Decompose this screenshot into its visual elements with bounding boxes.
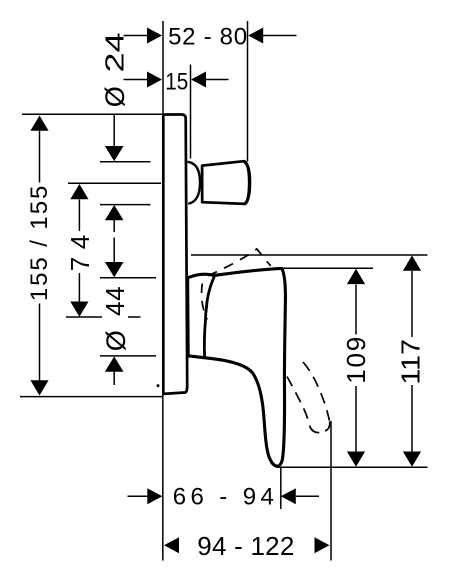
dim 109 stem lower	[355, 386, 357, 452]
arrow 15 left	[147, 72, 162, 88]
tick hub bottom	[100, 355, 156, 357]
escutcheon plate (side view)	[163, 115, 187, 394]
arrow 94-122 left	[164, 537, 179, 553]
extension line handle tip bottom	[277, 466, 428, 468]
dim 52-80 left tail	[124, 35, 148, 37]
lever handle body	[188, 268, 286, 466]
dim chain stem mid a	[113, 220, 115, 232]
dim 117 stem upper	[411, 271, 413, 337]
dim 15 left tail	[124, 79, 148, 81]
dim 52-80 right tail	[263, 35, 297, 37]
svg-text:94 - 122: 94 - 122	[197, 531, 294, 561]
knob front cap (thicker edge)	[244, 161, 250, 204]
extension line right of 52-80 (knob face)	[247, 21, 249, 162]
dim 109 stem upper	[355, 285, 357, 335]
knob (shut-off handle)	[202, 161, 249, 204]
dashed open lever tip arc	[310, 422, 330, 433]
knob sleeve bump	[188, 162, 201, 204]
dashed swept arc top	[208, 249, 271, 276]
tick knob bottom	[100, 204, 151, 206]
arrow 66-94 right	[281, 488, 296, 504]
arrow 52-80 right	[248, 28, 263, 44]
arrow 155 down	[30, 380, 48, 395]
arrow 66-94 left	[147, 488, 162, 504]
dashed open lever right edge	[303, 362, 330, 421]
extension line bottom left (plate)	[162, 394, 164, 561]
extension line 109 top (handle corner)	[283, 267, 373, 269]
extension line left of 52-80 (wall plane)	[162, 21, 164, 114]
svg-text:Ø: Ø	[100, 86, 130, 107]
svg-text:117: 117	[395, 339, 425, 385]
arrow O44 up	[105, 356, 124, 371]
arrow 117 up	[403, 255, 421, 270]
dim 117 stem lower	[411, 385, 413, 452]
small ink dot artifact left of plate	[157, 384, 160, 387]
svg-text:109: 109	[341, 337, 371, 384]
tick knob top	[100, 161, 151, 163]
tick hub top	[100, 277, 156, 279]
svg-text:Ø: Ø	[101, 330, 131, 351]
dim 66-94 right tail	[296, 495, 319, 497]
svg-text:155 / 155: 155 / 155	[26, 186, 53, 302]
arrow 94-122 right	[315, 537, 330, 553]
dim 15 right tail	[206, 79, 229, 81]
dim chain stem mid b	[113, 238, 115, 263]
extension line handle axis	[68, 182, 161, 184]
extension line plate top	[22, 113, 163, 115]
arrow 52-80 left	[147, 28, 162, 44]
arrow 74 up	[70, 184, 88, 199]
svg-text:52 - 80: 52 - 80	[168, 24, 247, 51]
arrow O24 down	[105, 146, 124, 161]
dim chain stem top (O24)	[113, 114, 115, 146]
lever handle inner contour	[204, 277, 214, 358]
dim 155/155 stem upper	[39, 131, 41, 183]
extension line right of 15 (plate face)	[190, 65, 192, 159]
dashed open lever left edge	[287, 377, 310, 427]
tick 74 bottom right part	[128, 316, 141, 318]
dim 74 stem lower	[78, 273, 80, 302]
arrow 109 up	[347, 269, 365, 284]
dim 74 stem upper	[78, 200, 80, 232]
arrow 109 down	[347, 452, 365, 467]
extension line dashed tip vertical	[330, 421, 332, 561]
arrow 74 down	[70, 302, 88, 317]
arrow O44 down	[105, 262, 124, 277]
extension line handle tip vertical	[280, 467, 282, 509]
svg-text:24: 24	[100, 33, 130, 73]
dim 155/155 stem lower	[39, 304, 41, 381]
arrow 117 down	[403, 452, 421, 467]
dim chain stem bottom (O44)	[113, 371, 115, 385]
tick 74 bottom left part	[66, 316, 102, 318]
svg-text:15: 15	[165, 69, 188, 96]
svg-text:44: 44	[100, 286, 130, 316]
dim 66-94 left tail	[128, 495, 148, 497]
arrow 15 right	[191, 72, 206, 88]
arrow 155 up	[30, 116, 48, 131]
arrow O24 up	[105, 205, 124, 220]
extension line plate bottom	[20, 396, 163, 398]
extension line 117 top (plate face level)	[191, 254, 428, 256]
dashed swept arc near plate	[202, 284, 208, 320]
